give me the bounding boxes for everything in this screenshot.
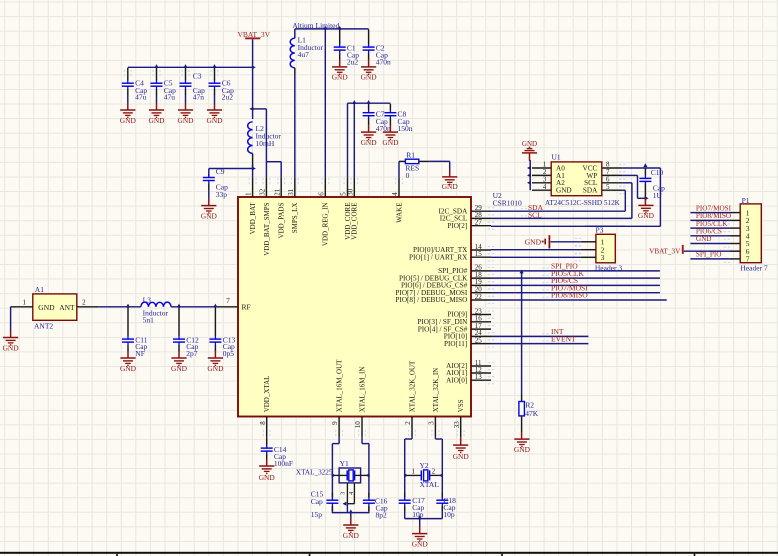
- svg-text:3: 3: [341, 492, 347, 495]
- svg-text:GND: GND: [556, 187, 572, 195]
- svg-text:GND: GND: [148, 116, 165, 125]
- svg-text:2: 2: [82, 298, 86, 306]
- svg-text:8p2: 8p2: [376, 510, 388, 519]
- svg-text:GND: GND: [177, 116, 194, 125]
- svg-text:XTAL_3225: XTAL_3225: [296, 469, 333, 477]
- svg-text:470n: 470n: [376, 58, 391, 67]
- svg-text:ANT2: ANT2: [34, 321, 53, 330]
- svg-text:GND: GND: [382, 138, 399, 147]
- svg-text:VDD_XTAL: VDD_XTAL: [263, 376, 271, 413]
- svg-text:10p: 10p: [443, 510, 455, 519]
- svg-text:31: 31: [287, 188, 295, 196]
- svg-text:27: 27: [475, 219, 483, 227]
- svg-text:SDA: SDA: [583, 187, 598, 195]
- svg-text:2u2: 2u2: [222, 93, 234, 102]
- svg-text:GND: GND: [207, 364, 224, 373]
- svg-text:CSR1010: CSR1010: [493, 199, 522, 208]
- svg-text:47K: 47K: [525, 409, 539, 418]
- svg-text:SMPS_LX: SMPS_LX: [291, 203, 299, 234]
- svg-text:VDD_PADS: VDD_PADS: [278, 202, 286, 238]
- svg-text:XTAL_16M_IN: XTAL_16M_IN: [358, 367, 366, 413]
- svg-text:U1: U1: [552, 153, 561, 162]
- svg-text:SCL: SCL: [528, 210, 542, 219]
- svg-text:30: 30: [346, 188, 354, 196]
- svg-text:XTAL_16M_OUT: XTAL_16M_OUT: [336, 359, 344, 412]
- svg-text:100nF: 100nF: [274, 459, 293, 468]
- svg-text:PIO[11]: PIO[11]: [444, 340, 467, 348]
- svg-text:5: 5: [606, 183, 610, 191]
- svg-text:GND: GND: [332, 72, 349, 81]
- svg-text:VSS: VSS: [457, 399, 465, 412]
- svg-text:6: 6: [317, 192, 325, 196]
- svg-text:XTAL_32K_IN: XTAL_32K_IN: [432, 368, 440, 413]
- svg-text:3: 3: [428, 421, 436, 425]
- svg-text:PIO8/MISO: PIO8/MISO: [551, 291, 588, 300]
- svg-text:150n: 150n: [398, 124, 413, 133]
- svg-text:PIO7/MOSI: PIO7/MOSI: [696, 204, 732, 212]
- svg-text:RF: RF: [242, 302, 251, 311]
- svg-text:GND: GND: [171, 364, 188, 373]
- svg-text:Y1: Y1: [340, 459, 349, 468]
- svg-text:21: 21: [273, 188, 281, 196]
- svg-text:ANT: ANT: [59, 303, 75, 312]
- svg-text:3: 3: [601, 253, 605, 262]
- svg-text:1: 1: [245, 192, 253, 196]
- svg-text:GND: GND: [453, 452, 470, 461]
- svg-text:VDD_BAT: VDD_BAT: [249, 202, 257, 235]
- svg-text:Y2: Y2: [420, 461, 429, 470]
- svg-text:GND: GND: [343, 531, 360, 540]
- svg-text:2: 2: [404, 421, 412, 425]
- svg-text:VDD_REG_IN: VDD_REG_IN: [322, 203, 330, 247]
- svg-text:32: 32: [259, 188, 267, 196]
- svg-text:33p: 33p: [216, 190, 228, 199]
- svg-text:C9: C9: [216, 167, 225, 176]
- svg-text:47u: 47u: [135, 93, 147, 102]
- svg-text:GND: GND: [638, 211, 655, 220]
- svg-text:47n: 47n: [193, 93, 205, 102]
- svg-text:L3: L3: [143, 295, 152, 304]
- svg-text:Header 7: Header 7: [740, 264, 768, 273]
- svg-text:GND: GND: [38, 303, 55, 312]
- svg-text:AT24C512C-SSHD 512K: AT24C512C-SSHD 512K: [545, 199, 621, 207]
- svg-text:GND: GND: [361, 138, 378, 147]
- svg-text:GND: GND: [120, 364, 137, 373]
- svg-text:GND: GND: [696, 235, 712, 243]
- svg-text:0p5: 0p5: [223, 349, 235, 358]
- svg-text:A1: A1: [35, 285, 44, 294]
- svg-text:4: 4: [349, 492, 355, 495]
- svg-text:AIO[0]: AIO[0]: [446, 376, 467, 384]
- svg-text:PIO[1] / UART_RX: PIO[1] / UART_RX: [409, 253, 468, 261]
- svg-text:R1: R1: [406, 150, 415, 159]
- svg-text:P1: P1: [742, 196, 750, 205]
- svg-text:1: 1: [412, 468, 416, 476]
- svg-text:2: 2: [432, 468, 436, 476]
- svg-text:10: 10: [354, 421, 362, 429]
- svg-text:GND: GND: [201, 212, 218, 221]
- svg-text:7: 7: [746, 255, 750, 264]
- svg-text:C3: C3: [193, 72, 202, 81]
- svg-text:XTAL: XTAL: [420, 480, 440, 489]
- svg-text:PIO[8] / DEBUG_MISO: PIO[8] / DEBUG_MISO: [395, 296, 467, 304]
- svg-text:VDD_CORE: VDD_CORE: [351, 203, 359, 240]
- svg-text:EVENT: EVENT: [551, 335, 576, 344]
- svg-text:GND: GND: [361, 72, 378, 81]
- svg-text:NF: NF: [135, 349, 145, 358]
- svg-text:VBAT_3V: VBAT_3V: [649, 248, 681, 256]
- svg-text:GND: GND: [412, 540, 429, 549]
- svg-text:4u7: 4u7: [298, 50, 310, 59]
- svg-text:GND: GND: [120, 116, 137, 125]
- svg-text:0: 0: [406, 171, 410, 180]
- svg-text:GND: GND: [442, 182, 459, 191]
- svg-text:GND: GND: [525, 237, 542, 246]
- svg-text:33: 33: [453, 421, 461, 429]
- svg-text:VDD_BAT_SMPS: VDD_BAT_SMPS: [263, 202, 271, 255]
- svg-text:10p: 10p: [412, 510, 424, 519]
- svg-text:XTAL_32K_OUT: XTAL_32K_OUT: [408, 360, 416, 412]
- svg-text:1U: 1U: [653, 191, 663, 200]
- svg-text:C10: C10: [651, 168, 664, 177]
- svg-text:8: 8: [259, 421, 267, 425]
- svg-text:2u2: 2u2: [347, 58, 359, 67]
- svg-text:WAKE: WAKE: [395, 203, 403, 223]
- svg-text:4: 4: [543, 183, 547, 191]
- svg-text:5n1: 5n1: [143, 315, 155, 324]
- svg-text:7: 7: [226, 297, 230, 305]
- svg-text:47u: 47u: [164, 93, 176, 102]
- svg-text:1: 1: [23, 298, 27, 306]
- svg-text:25: 25: [475, 336, 483, 344]
- svg-text:GND: GND: [514, 445, 531, 454]
- svg-text:13: 13: [475, 373, 483, 381]
- svg-text:GND: GND: [3, 343, 20, 352]
- svg-text:15: 15: [475, 250, 483, 258]
- svg-text:GND: GND: [206, 116, 223, 125]
- svg-text:15p: 15p: [311, 510, 323, 519]
- svg-text:9: 9: [331, 421, 339, 425]
- svg-text:PIO[2]: PIO[2]: [447, 222, 467, 230]
- svg-text:Cap: Cap: [311, 497, 323, 506]
- svg-text:22: 22: [475, 293, 483, 301]
- svg-text:4: 4: [391, 192, 399, 196]
- svg-text:2p7: 2p7: [186, 349, 198, 358]
- svg-text:GND: GND: [259, 473, 276, 482]
- svg-text:10mH: 10mH: [256, 139, 275, 148]
